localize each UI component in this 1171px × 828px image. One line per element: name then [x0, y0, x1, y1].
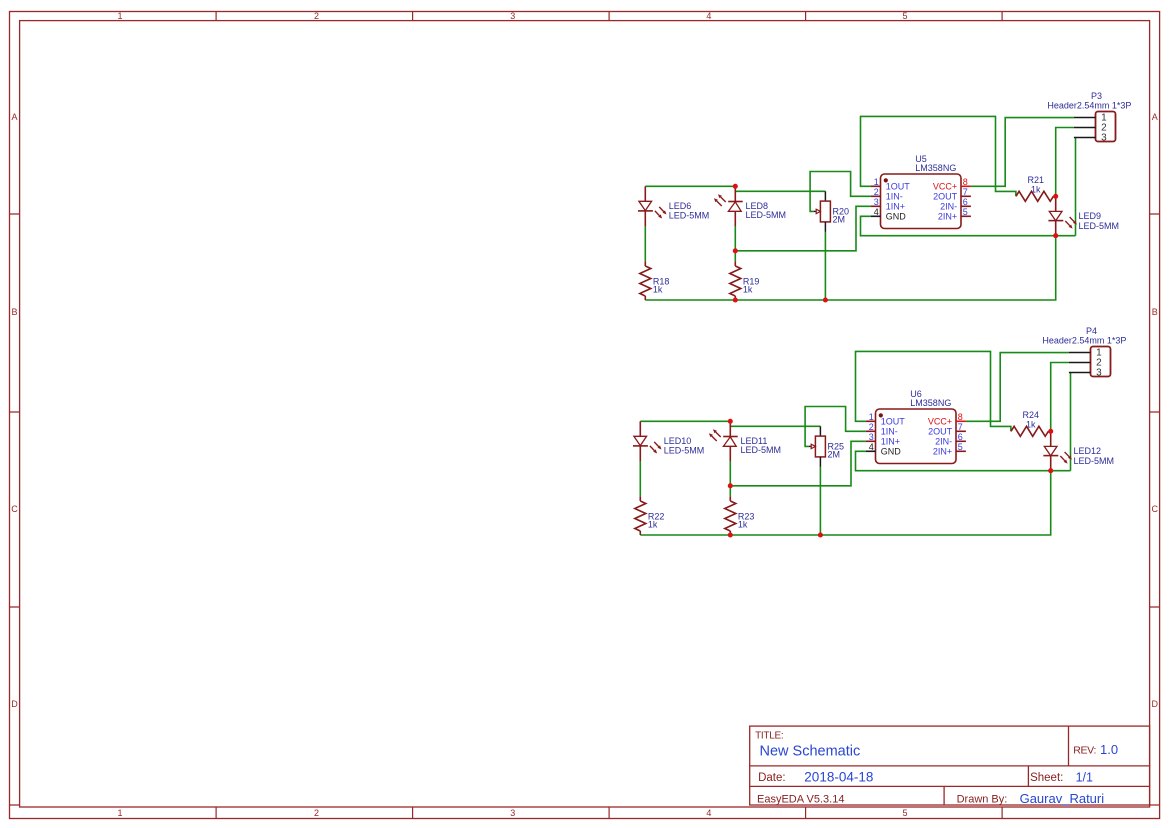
wire net 1OUT: U6 pin1 up and over to R24 left	[856, 351, 1011, 431]
svg-text:1/1: 1/1	[1076, 770, 1093, 784]
svg-text:2IN+: 2IN+	[938, 212, 957, 222]
junction node R19 bottom rail	[733, 297, 738, 302]
wire P4 pin3 down to GND rail	[1070, 373, 1072, 471]
resistor R23 1k	[725, 496, 755, 535]
junction node R25 bottom rail	[818, 532, 823, 537]
svg-text:8: 8	[963, 177, 968, 187]
svg-text:5: 5	[902, 11, 907, 21]
resistor R24 1k	[1011, 410, 1051, 436]
svg-text:Date:: Date:	[758, 772, 786, 784]
svg-text:GND: GND	[886, 212, 907, 222]
wire GND rail: U5 pin4 across to P3 pin3 branch	[861, 216, 1076, 235]
svg-text:7: 7	[963, 187, 968, 197]
svg-text:7: 7	[958, 422, 963, 432]
title block Drawn By field	[957, 791, 1105, 806]
svg-text:1k: 1k	[738, 520, 748, 530]
svg-text:8: 8	[958, 412, 963, 422]
svg-text:2OUT: 2OUT	[928, 427, 953, 437]
wire GND rail: U6 pin4 across to P4 pin3 branch	[856, 451, 1071, 470]
svg-text:6: 6	[963, 197, 968, 207]
svg-text:B: B	[11, 307, 17, 317]
potentiometer R25 2M	[809, 426, 844, 467]
wire P3 pin2 down to R21/LED9 node	[1056, 128, 1074, 197]
junction node R23 top	[728, 483, 733, 488]
svg-text:Sheet:: Sheet:	[1030, 772, 1063, 784]
wire net LED anode rail: LED10 top to LED11 top	[640, 420, 730, 422]
potentiometer R20 2M	[814, 191, 849, 232]
svg-text:2M: 2M	[833, 215, 846, 225]
junction node LED9 cathode / GND rail	[1053, 233, 1058, 238]
svg-text:LED-5MM: LED-5MM	[741, 445, 782, 455]
svg-text:LED9: LED9	[1079, 211, 1102, 221]
title block Date field	[758, 769, 873, 784]
svg-text:LED-5MM: LED-5MM	[669, 211, 710, 221]
wire LED8 cathode down to R19	[734, 226, 736, 261]
wire net LED anode rail: LED6 top to LED8 top	[645, 185, 735, 187]
svg-text:3: 3	[510, 11, 515, 21]
svg-text:LED-5MM: LED-5MM	[1079, 221, 1120, 231]
svg-text:GND: GND	[881, 447, 902, 457]
wire net 1IN+: R19 top node to U5 pin3	[735, 206, 871, 251]
svg-text:B: B	[1152, 307, 1158, 317]
svg-text:1OUT: 1OUT	[886, 182, 911, 192]
junction node R19 top	[733, 248, 738, 253]
connector P4 Header2.54mm 1*3P	[1042, 326, 1126, 378]
svg-text:1: 1	[869, 412, 874, 422]
wire net VCC+: U6 pin8 to P4 pin1	[966, 353, 1069, 422]
svg-text:P4: P4	[1086, 326, 1097, 336]
title block outline	[750, 726, 1150, 805]
wire net 1IN-: R20 wiper to U5 pin2	[810, 172, 871, 212]
svg-text:1OUT: 1OUT	[881, 417, 906, 427]
svg-text:1: 1	[874, 177, 879, 187]
svg-text:LED-5MM: LED-5MM	[664, 446, 705, 456]
svg-text:2: 2	[874, 187, 879, 197]
wire P4 pin2 down to R24/LED12 node	[1051, 363, 1069, 432]
border row letters left	[11, 112, 18, 709]
wire bottom return rail	[645, 236, 1055, 300]
LED LED6 LED-5MM	[638, 186, 709, 226]
svg-text:6: 6	[958, 432, 963, 442]
svg-text:2IN-: 2IN-	[935, 437, 952, 447]
svg-text:Drawn By:: Drawn By:	[957, 794, 1008, 806]
svg-text:LED-5MM: LED-5MM	[1074, 456, 1115, 466]
svg-text:Gaurav_Raturi: Gaurav_Raturi	[1020, 791, 1105, 806]
border row letters right	[1151, 112, 1158, 709]
svg-text:1k: 1k	[1031, 185, 1041, 195]
svg-text:4: 4	[874, 207, 879, 217]
junction node LED11 anode	[728, 419, 733, 424]
svg-text:D: D	[11, 699, 18, 709]
svg-text:REV:: REV:	[1073, 745, 1096, 757]
wire LED10 cathode down to R22	[639, 461, 641, 496]
svg-text:2OUT: 2OUT	[933, 192, 958, 202]
resistor R21 1k	[1016, 175, 1056, 201]
wire LED11 top to R25 top	[730, 425, 820, 427]
title block Sheet field	[1030, 770, 1093, 784]
svg-text:New Schematic: New Schematic	[760, 744, 861, 760]
svg-text:2IN+: 2IN+	[933, 447, 952, 457]
svg-text:TITLE:: TITLE:	[755, 731, 783, 742]
wire net VCC+: U5 pin8 to P3 pin1	[971, 118, 1074, 187]
svg-text:2M: 2M	[828, 450, 841, 460]
junction node LED8 anode	[733, 184, 738, 189]
svg-text:EasyEDA V5.3.14: EasyEDA V5.3.14	[757, 794, 844, 806]
junction node R21/LED9 output	[1053, 194, 1058, 199]
svg-text:2018-04-18: 2018-04-18	[804, 769, 873, 784]
svg-text:C: C	[1151, 504, 1158, 514]
svg-text:3: 3	[869, 432, 874, 442]
svg-text:3: 3	[1101, 133, 1107, 144]
junction node R20 bottom rail	[823, 297, 828, 302]
junction node LED12 cathode / GND rail	[1048, 468, 1053, 473]
svg-text:LM358NG: LM358NG	[915, 163, 956, 173]
svg-text:4: 4	[869, 442, 874, 452]
wire P3 pin3 down to GND rail	[1075, 138, 1077, 236]
border column numbers top	[117, 11, 907, 21]
svg-text:1: 1	[117, 808, 122, 818]
svg-text:VCC+: VCC+	[933, 182, 957, 192]
svg-text:D: D	[1151, 699, 1158, 709]
svg-text:Header2.54mm 1*3P: Header2.54mm 1*3P	[1042, 336, 1126, 346]
svg-text:1IN+: 1IN+	[881, 437, 900, 447]
resistor R22 1k	[635, 496, 665, 535]
wire net 1IN+: R23 top node to U6 pin3	[730, 441, 866, 486]
op-amp U5 LM358NG	[871, 154, 971, 229]
svg-text:LED12: LED12	[1074, 446, 1102, 456]
title block TITLE field	[755, 731, 860, 760]
svg-text:LED-5MM: LED-5MM	[746, 210, 787, 220]
svg-text:5: 5	[902, 808, 907, 818]
wire bottom return rail	[640, 471, 1050, 535]
wire LED6 cathode down to R18	[644, 226, 646, 261]
svg-text:1k: 1k	[648, 520, 658, 530]
LED LED8 LED-5MM	[714, 186, 786, 226]
svg-text:3: 3	[874, 197, 879, 207]
junction node R23 bottom rail	[728, 532, 733, 537]
wire R20 bottom to return rail	[824, 232, 826, 300]
svg-text:1IN+: 1IN+	[886, 202, 905, 212]
svg-text:LM358NG: LM358NG	[910, 398, 951, 408]
svg-text:P3: P3	[1091, 91, 1102, 101]
svg-text:2: 2	[314, 11, 319, 21]
svg-text:2: 2	[869, 422, 874, 432]
svg-text:5: 5	[958, 442, 963, 452]
svg-text:VCC+: VCC+	[928, 417, 952, 427]
svg-text:1IN-: 1IN-	[881, 427, 898, 437]
resistor R19 1k	[730, 261, 760, 300]
junction node R24/LED12 output	[1048, 429, 1053, 434]
svg-text:1: 1	[117, 11, 122, 21]
wire LED8 top to R20 top	[735, 190, 825, 192]
wire R25 bottom to return rail	[819, 467, 821, 535]
svg-text:2IN-: 2IN-	[940, 202, 957, 212]
resistor R18 1k	[640, 261, 670, 300]
LED LED10 LED-5MM	[633, 421, 704, 461]
svg-text:4: 4	[706, 11, 711, 21]
svg-text:A: A	[1152, 112, 1158, 122]
svg-text:C: C	[11, 504, 18, 514]
LED LED11 LED-5MM	[709, 421, 781, 461]
LED LED12 LED-5MM	[1043, 431, 1114, 470]
wire net 1IN-: R25 wiper to U6 pin2	[805, 407, 866, 447]
connector P3 Header2.54mm 1*3P	[1047, 91, 1131, 143]
svg-text:1.0: 1.0	[1100, 742, 1118, 757]
op-amp U6 LM358NG	[866, 389, 966, 464]
svg-text:1IN-: 1IN-	[886, 192, 903, 202]
wire net 1OUT: U5 pin1 up and over to R21 left	[861, 116, 1016, 196]
svg-text:2: 2	[314, 808, 319, 818]
svg-text:A: A	[11, 112, 17, 122]
svg-text:3: 3	[1096, 368, 1102, 379]
svg-text:Header2.54mm 1*3P: Header2.54mm 1*3P	[1047, 101, 1131, 111]
svg-text:1k: 1k	[653, 285, 663, 295]
border column numbers bottom	[117, 808, 907, 818]
svg-text:1k: 1k	[743, 285, 753, 295]
svg-text:3: 3	[510, 808, 515, 818]
LED LED9 LED-5MM	[1048, 196, 1119, 235]
title block REV field	[1073, 742, 1118, 757]
wire LED11 cathode down to R23	[729, 461, 731, 496]
svg-text:1k: 1k	[1026, 420, 1036, 430]
svg-text:5: 5	[963, 207, 968, 217]
svg-text:4: 4	[706, 808, 711, 818]
